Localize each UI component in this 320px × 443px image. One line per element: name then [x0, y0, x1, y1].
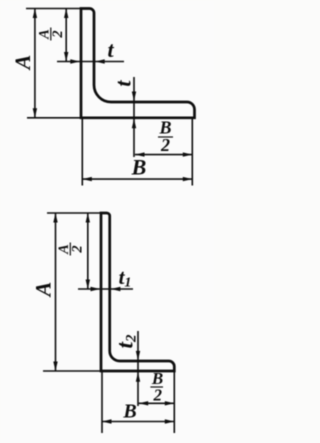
svg-text:t: t	[107, 37, 114, 62]
svg-text:2: 2	[50, 30, 66, 38]
svg-text:2: 2	[153, 386, 163, 405]
svg-text:2: 2	[70, 245, 86, 253]
svg-text:2: 2	[160, 135, 170, 155]
svg-text:B: B	[131, 155, 147, 180]
svg-text:t: t	[111, 80, 136, 87]
svg-text:A: A	[10, 55, 35, 72]
svg-text:B: B	[122, 401, 136, 423]
svg-text:A: A	[30, 282, 55, 299]
